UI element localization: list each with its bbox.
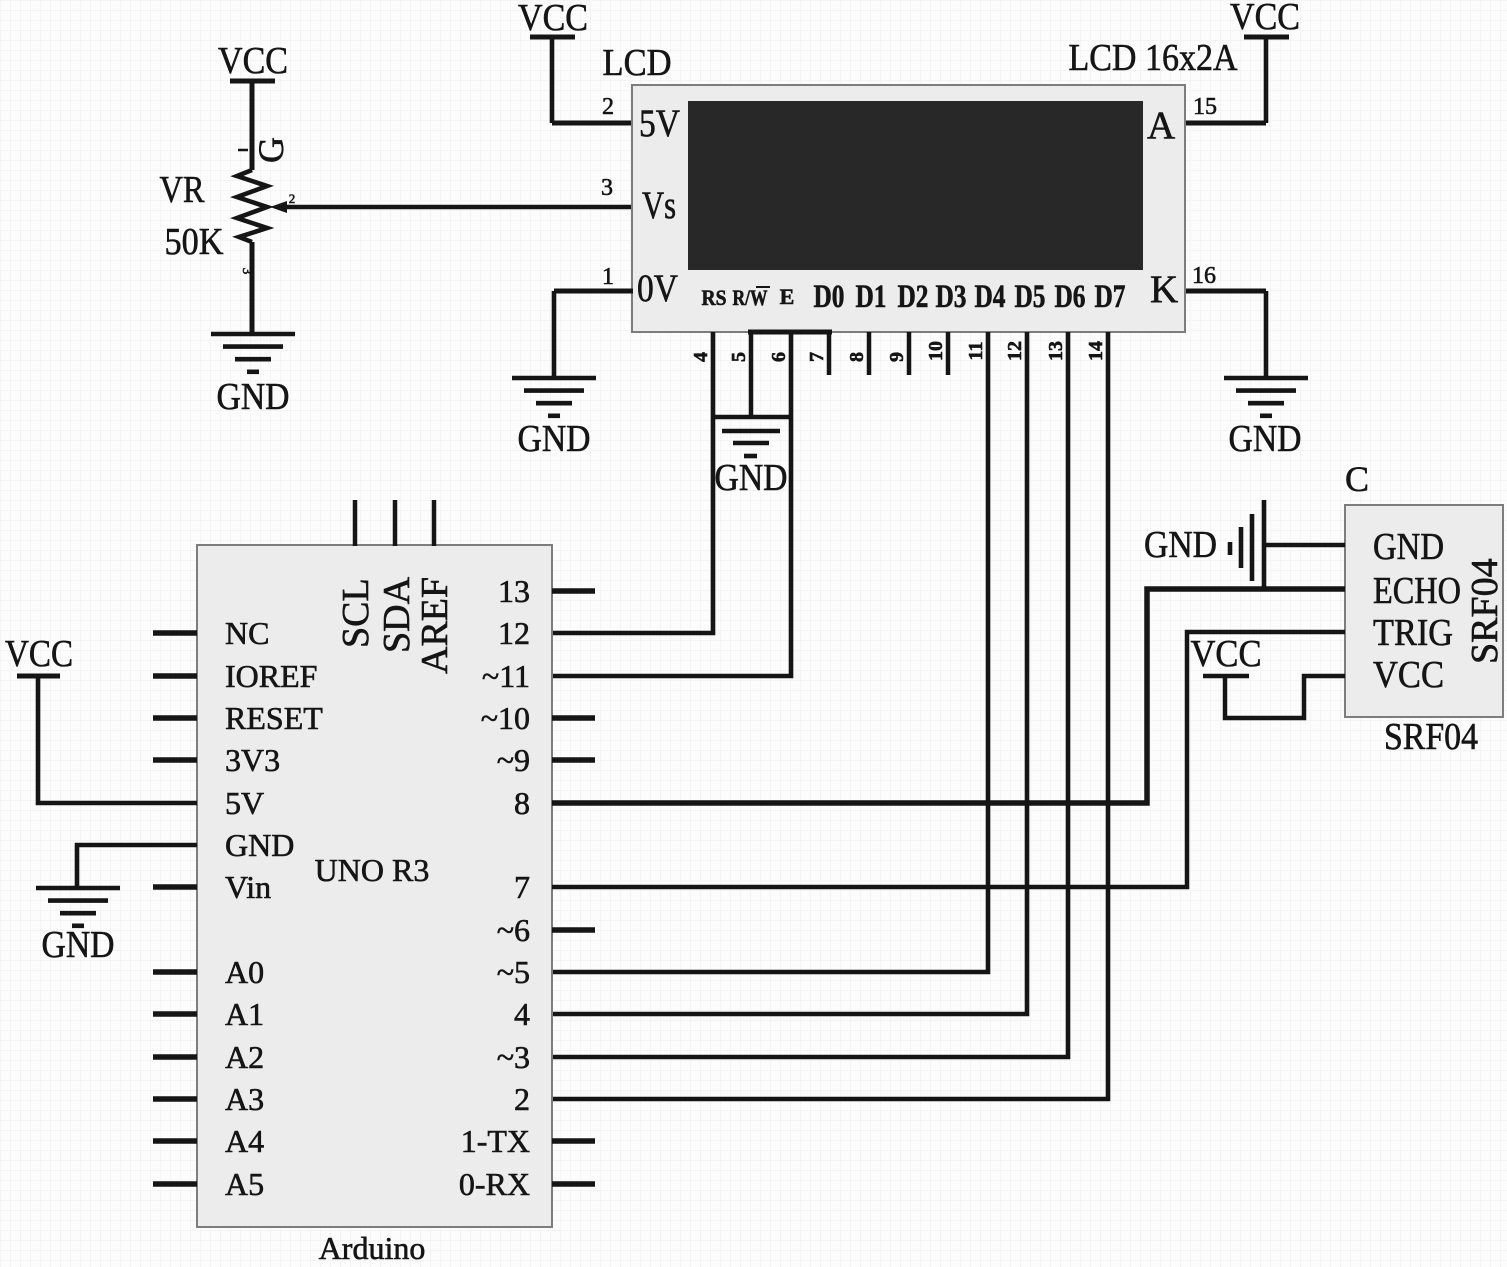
svg-text:0-RX: 0-RX [459,1166,530,1202]
svg-text:1: 1 [602,264,614,290]
svg-text:~6: ~6 [497,912,530,948]
svg-text:1-TX: 1-TX [461,1123,530,1159]
svg-text:D3: D3 [936,279,967,315]
svg-text:A1: A1 [225,996,264,1032]
svg-text:VR: VR [160,169,206,211]
svg-text:D7: D7 [1095,279,1126,315]
svg-text:VCC: VCC [5,633,73,675]
svg-text:GND: GND [1229,418,1302,460]
svg-text:4: 4 [514,996,530,1032]
svg-text:RESET: RESET [225,700,323,736]
svg-text:3: 3 [601,175,613,201]
svg-text:16: 16 [1192,263,1216,289]
svg-text:D4: D4 [975,279,1006,315]
svg-text:GND: GND [217,376,290,418]
svg-text:LCD 16x2A: LCD 16x2A [1069,37,1238,79]
svg-text:K: K [1150,268,1178,311]
svg-text:12: 12 [498,615,530,651]
svg-text:13: 13 [1045,341,1067,361]
svg-text:A0: A0 [225,954,264,990]
svg-text:12: 12 [1004,341,1026,361]
svg-text:G: G [251,137,291,163]
svg-text:2: 2 [602,94,614,120]
svg-text:A5: A5 [225,1166,264,1202]
svg-text:SCL: SCL [335,578,377,648]
svg-text:GND: GND [1373,526,1444,568]
svg-text:GND: GND [42,924,115,966]
svg-text:10: 10 [925,341,947,361]
svg-text:15: 15 [1193,94,1217,120]
svg-text:~3: ~3 [497,1039,530,1075]
svg-text:8: 8 [846,352,868,362]
svg-text:~5: ~5 [497,954,530,990]
svg-text:D2: D2 [898,279,929,315]
svg-text:GND: GND [1144,524,1217,566]
svg-text:5: 5 [728,352,750,362]
svg-text:2: 2 [289,191,296,206]
svg-text:SRF04: SRF04 [1464,558,1506,664]
svg-text:ECHO: ECHO [1373,570,1461,612]
svg-text:A: A [1147,104,1175,147]
svg-text:Arduino: Arduino [319,1230,426,1266]
svg-text:AREF: AREF [414,577,456,674]
svg-text:SDA: SDA [376,576,418,653]
svg-text:14: 14 [1085,341,1107,361]
svg-text:5V: 5V [639,102,680,145]
svg-text:NC: NC [225,615,269,651]
svg-text:~10: ~10 [481,700,530,736]
svg-text:D0: D0 [814,279,845,315]
svg-text:13: 13 [498,573,530,609]
svg-text:RS: RS [702,285,727,310]
svg-text:LCD: LCD [603,42,672,84]
svg-text:SRF04: SRF04 [1384,716,1478,758]
svg-text:6: 6 [768,352,790,362]
svg-text:0V: 0V [637,267,678,310]
svg-text:UNO R3: UNO R3 [315,852,430,888]
svg-text:GND: GND [225,827,294,863]
svg-text:GND: GND [715,457,788,499]
svg-text:Vin: Vin [225,869,271,905]
svg-text:7: 7 [806,352,828,362]
svg-text:9: 9 [886,352,908,362]
svg-text:TRIG: TRIG [1373,612,1453,654]
svg-text:5V: 5V [225,785,264,821]
svg-text:8: 8 [514,785,530,821]
svg-text:2: 2 [514,1081,530,1117]
svg-text:VCC: VCC [1191,633,1262,675]
svg-text:7: 7 [514,869,530,905]
svg-text:VCC: VCC [1373,654,1444,696]
svg-text:GND: GND [518,418,591,460]
svg-text:IOREF: IOREF [225,658,317,694]
svg-text:3V3: 3V3 [225,742,280,778]
svg-text:Vs: Vs [642,184,676,227]
svg-text:D1: D1 [856,279,887,315]
svg-text:A4: A4 [225,1123,264,1159]
svg-text:~9: ~9 [497,742,530,778]
svg-text:C: C [1345,459,1369,499]
svg-text:E: E [780,284,795,309]
svg-text:~11: ~11 [482,658,530,694]
svg-text:A2: A2 [225,1039,264,1075]
svg-text:VCC: VCC [518,0,588,39]
svg-text:4: 4 [690,352,712,362]
svg-text:11: 11 [965,342,987,361]
svg-text:R/W: R/W [733,285,768,310]
svg-text:D5: D5 [1015,279,1046,315]
svg-text:VCC: VCC [218,40,288,82]
svg-text:50K: 50K [165,221,224,263]
svg-text:D6: D6 [1055,279,1086,315]
svg-text:A3: A3 [225,1081,264,1117]
svg-text:VCC: VCC [1230,0,1300,38]
